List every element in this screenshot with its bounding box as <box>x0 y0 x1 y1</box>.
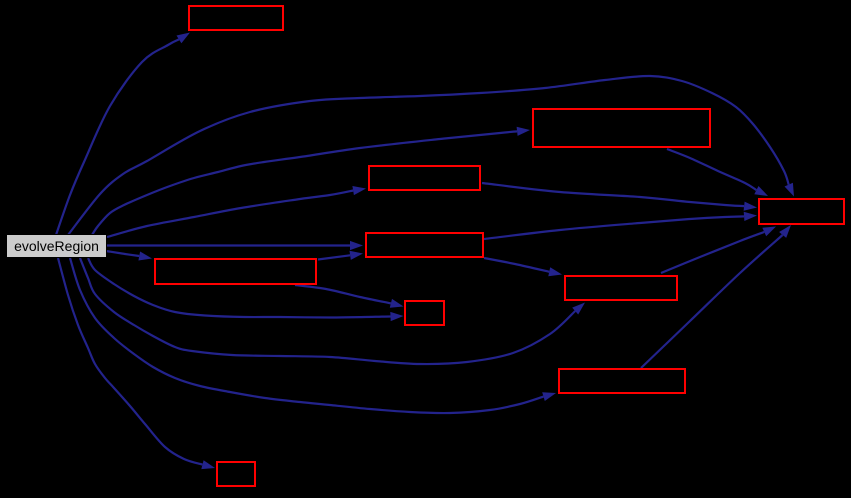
svg-text:evolveRegion: evolveRegion <box>14 238 99 254</box>
node A <box>189 6 283 30</box>
edge evolveRegion->D <box>107 241 363 250</box>
edge evolveRegion->J <box>58 258 215 469</box>
edge evolveRegion->A <box>56 33 190 236</box>
edge evolveRegion->H <box>68 76 794 235</box>
node J <box>217 462 255 486</box>
node evolveRegion <box>7 235 107 258</box>
node E <box>155 259 316 284</box>
edge evolveRegion->G <box>80 258 585 364</box>
edge B->H <box>667 149 768 196</box>
edge E->D <box>318 251 363 260</box>
edge I->H <box>641 225 791 368</box>
node B <box>533 109 710 147</box>
node D <box>366 233 483 257</box>
edge D->G <box>484 258 562 276</box>
node C <box>369 166 480 190</box>
edge evolveRegion->I <box>70 258 556 413</box>
node H <box>759 199 844 224</box>
edge G->H <box>661 227 776 274</box>
edge evolveRegion->B <box>92 127 530 235</box>
edge evolveRegion->C <box>107 186 366 237</box>
edge C->H <box>482 183 757 211</box>
node G <box>565 276 677 300</box>
edge D->H <box>484 212 757 239</box>
edge E->F <box>295 285 404 308</box>
edge evolveRegion->E <box>106 251 152 261</box>
edge evolveRegion->F <box>88 258 404 321</box>
node I <box>559 369 685 393</box>
node F <box>405 301 444 325</box>
